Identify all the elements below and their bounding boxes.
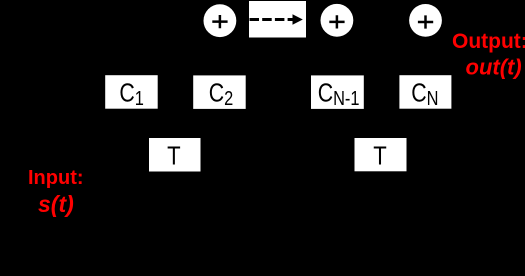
delay box T2 bbox=[355, 138, 407, 171]
svg-text:s(t): s(t) bbox=[38, 191, 74, 217]
summer circle S2 bbox=[321, 4, 354, 37]
coefficient box C2 bbox=[193, 75, 246, 109]
dashed-arrow box (ellipsis between taps) bbox=[249, 1, 306, 38]
svg-text:Input:: Input: bbox=[28, 167, 84, 189]
svg-text:T: T bbox=[373, 142, 387, 171]
svg-text:out(t): out(t) bbox=[466, 54, 522, 79]
summer circle S3 bbox=[409, 4, 442, 37]
svg-text:Output:: Output: bbox=[452, 30, 525, 53]
coefficient box CN-1 bbox=[311, 75, 364, 109]
coefficient box C1 bbox=[105, 75, 158, 109]
coefficient box CN bbox=[399, 75, 451, 109]
summer circle S1 bbox=[204, 4, 237, 37]
delay box T1 bbox=[149, 138, 201, 172]
svg-text:T: T bbox=[167, 142, 181, 171]
